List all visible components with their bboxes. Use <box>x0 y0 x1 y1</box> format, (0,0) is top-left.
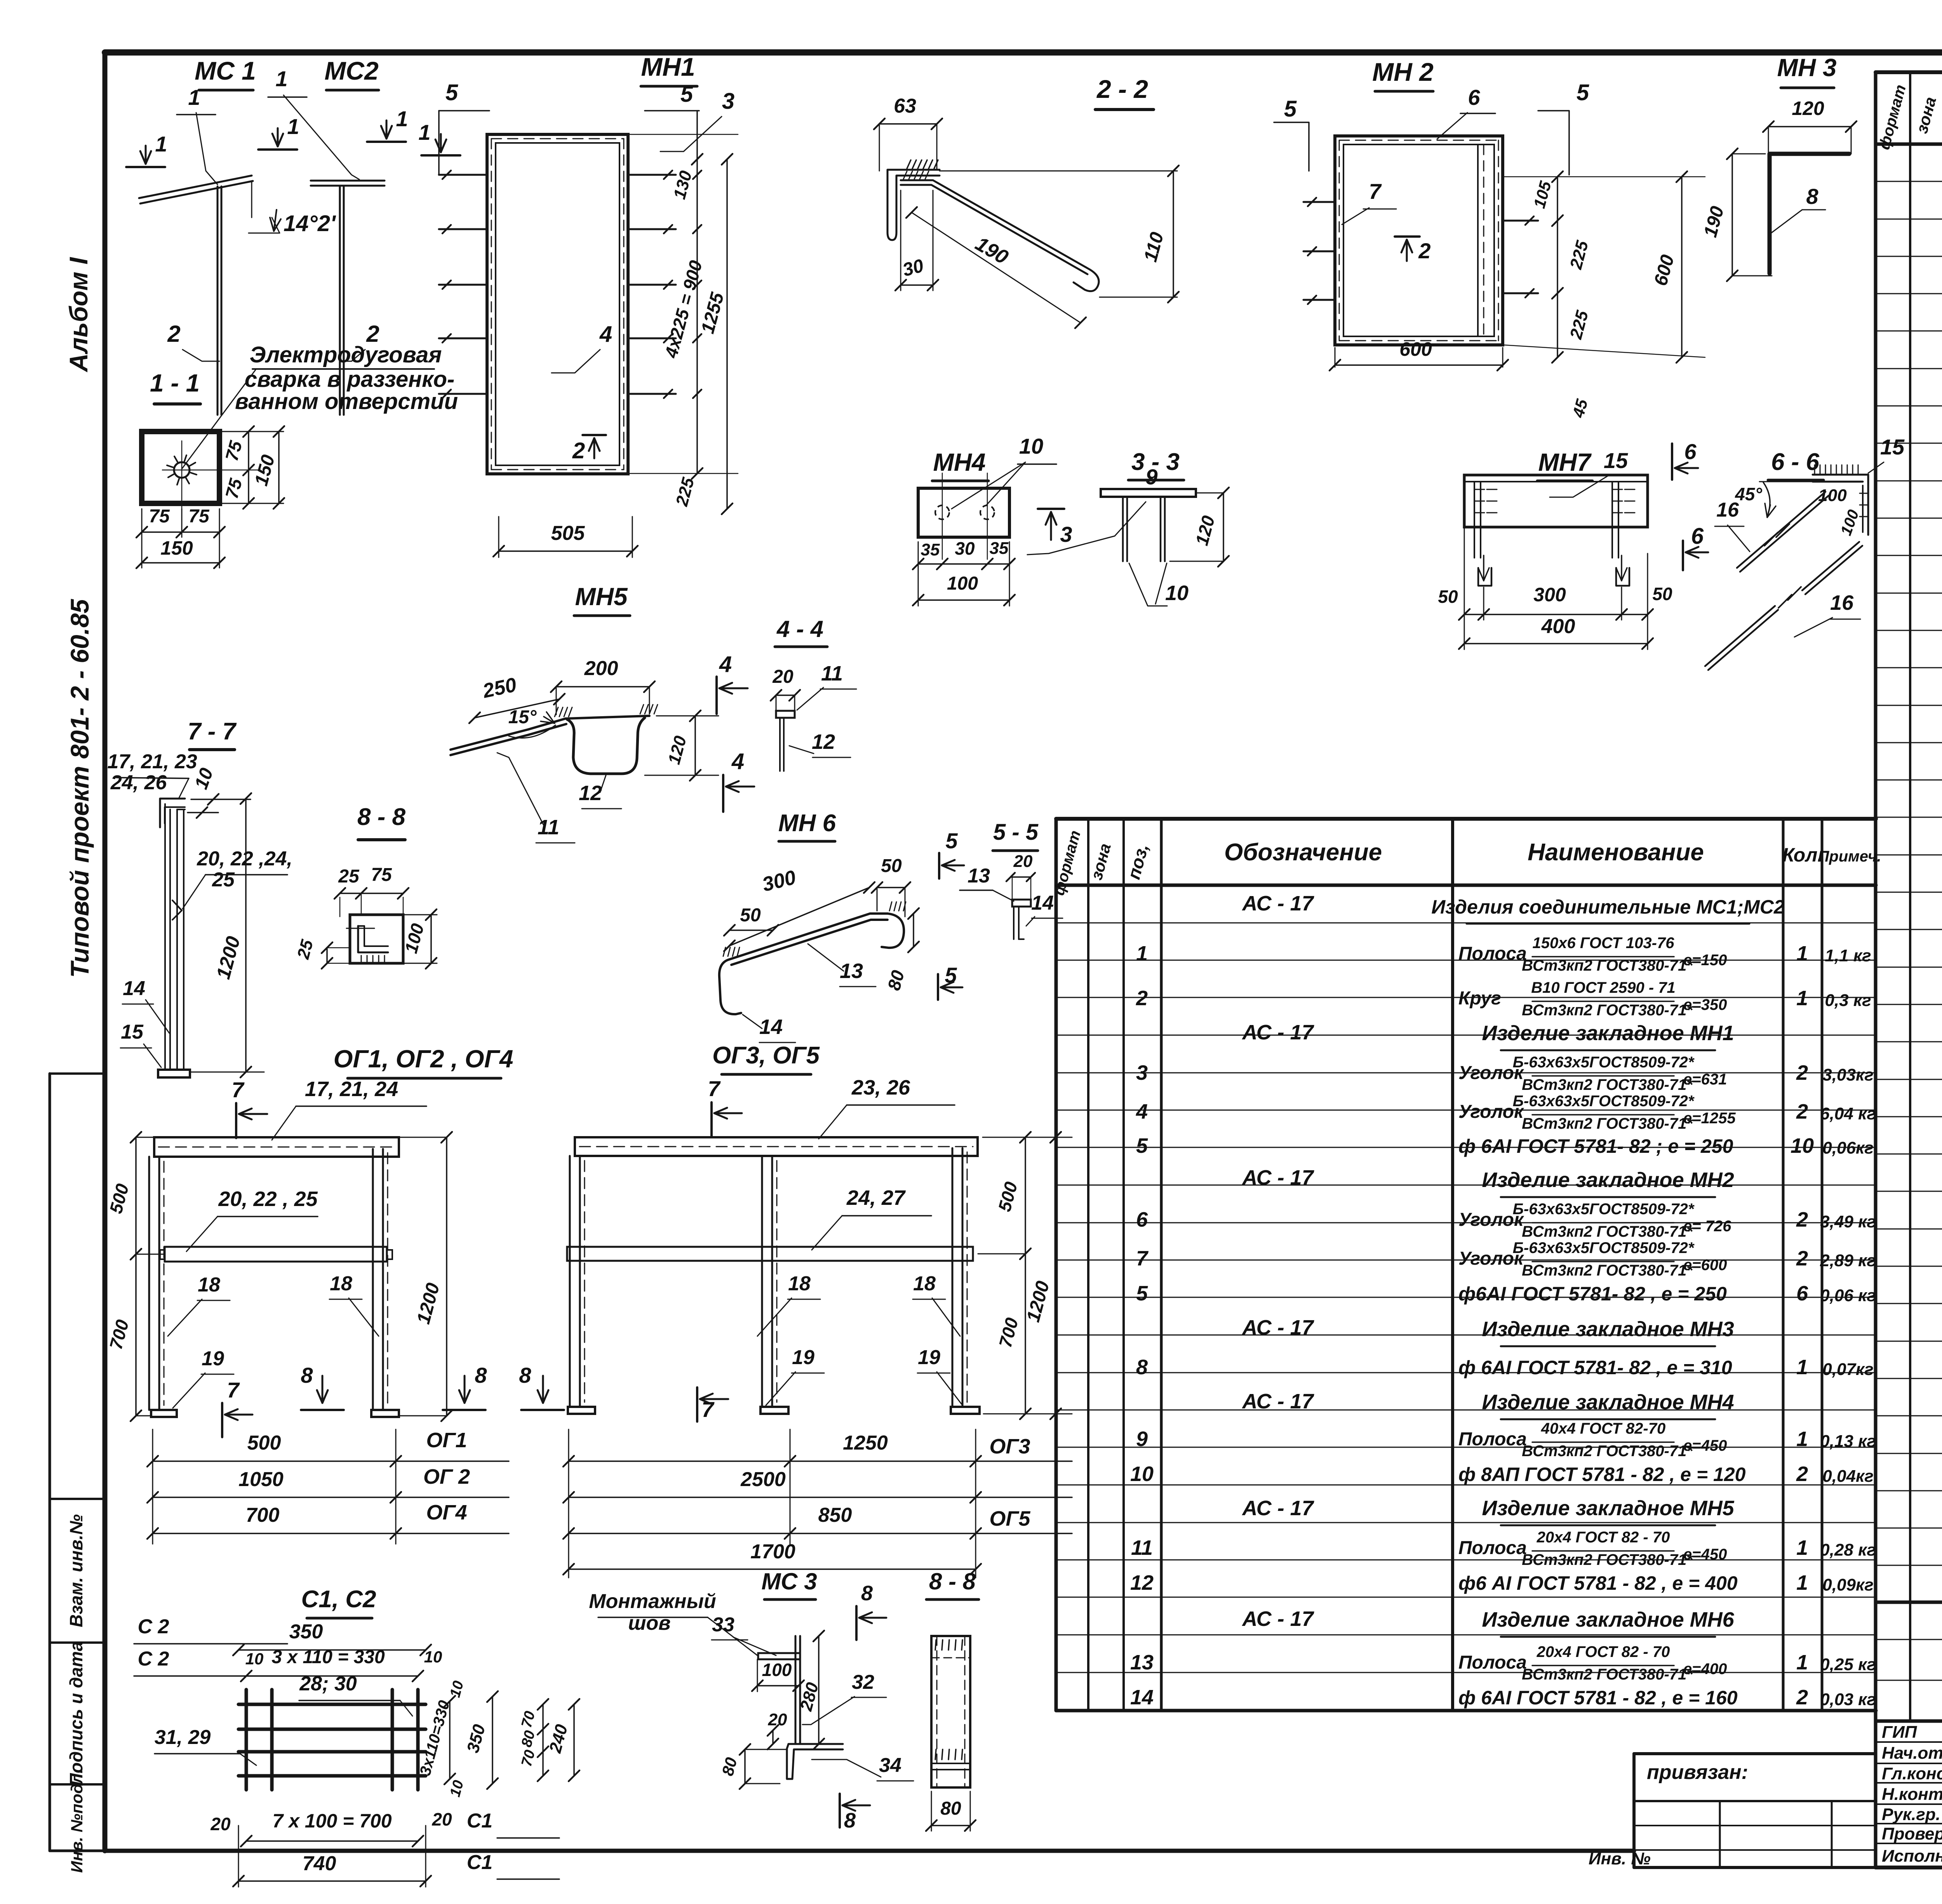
staff signature block <box>1874 1721 1878 1867</box>
svg-text:8: 8 <box>844 1809 856 1832</box>
svg-text:АС - 17: АС - 17 <box>1241 1021 1314 1044</box>
svg-text:Б-63х63х5ГОСТ8509-72*: Б-63х63х5ГОСТ8509-72* <box>1513 1239 1695 1257</box>
MN3 dim 190 <box>1731 154 1733 276</box>
svg-text:14: 14 <box>1031 892 1054 914</box>
svg-text:15: 15 <box>1604 448 1628 473</box>
5-5 bolt stem <box>1018 907 1020 939</box>
6-6 top angle horizontal hatched <box>1813 474 1868 476</box>
svg-text:740: 740 <box>303 1852 336 1875</box>
MN5 sloped sheet <box>451 716 649 750</box>
svg-text:3,03кг: 3,03кг <box>1822 1065 1873 1084</box>
svg-text:e= 726: e= 726 <box>1683 1218 1731 1235</box>
6-6 middle diagonal bar <box>1802 542 1859 590</box>
svg-text:17, 21, 23: 17, 21, 23 <box>107 750 197 773</box>
svg-text:С 2: С 2 <box>138 1648 169 1670</box>
svg-text:1: 1 <box>1136 942 1148 965</box>
6-6 upper diagonal bar <box>1737 492 1825 568</box>
svg-text:14°2': 14°2' <box>284 211 336 236</box>
svg-text:сварка в раззенко-: сварка в раззенко- <box>245 367 455 392</box>
right spec table outer frame <box>1876 70 1942 74</box>
svg-text:Рук.гр.: Рук.гр. <box>1882 1805 1940 1824</box>
MC3 vertical plate <box>799 1636 801 1744</box>
svg-text:40х4 ГОСТ 82-70: 40х4 ГОСТ 82-70 <box>1541 1420 1665 1437</box>
svg-text:Типовой проект 801- 2 - 60.8: Типовой проект 801- 2 - 60.85 <box>65 599 94 978</box>
svg-text:7: 7 <box>231 1077 245 1102</box>
svg-text:ф 6АI ГОСТ 5781- 82 ; e = 250: ф 6АI ГОСТ 5781- 82 ; e = 250 <box>1458 1135 1733 1157</box>
svg-text:3: 3 <box>1136 1061 1148 1084</box>
svg-text:2500: 2500 <box>740 1468 786 1491</box>
MN1 frame inner <box>496 143 619 465</box>
svg-text:ОГ3, ОГ5: ОГ3, ОГ5 <box>712 1042 820 1069</box>
svg-text:50: 50 <box>740 905 761 926</box>
svg-text:8 - 8: 8 - 8 <box>929 1568 976 1594</box>
svg-text:18: 18 <box>330 1272 352 1295</box>
svg-text:ОГ1, ОГ2 , ОГ4: ОГ1, ОГ2 , ОГ4 <box>334 1045 513 1073</box>
svg-text:1: 1 <box>1796 1427 1808 1451</box>
2-2 dim 30 <box>901 284 933 286</box>
MN7 section mark 6 bottom <box>1682 541 1684 570</box>
MN1 bottom dim 505 <box>499 550 632 552</box>
MN6 left hook <box>719 959 741 1014</box>
svg-text:1: 1 <box>1796 987 1808 1010</box>
svg-text:ф 6АI ГОСТ 5781 - 82 , e = 1: ф 6АI ГОСТ 5781 - 82 , e = 160 <box>1458 1687 1738 1709</box>
MN2 inner web line <box>1477 144 1479 336</box>
svg-text:505: 505 <box>551 522 585 545</box>
svg-text:25: 25 <box>212 868 235 891</box>
svg-text:e=1255: e=1255 <box>1683 1110 1736 1127</box>
svg-text:19: 19 <box>792 1346 814 1369</box>
OG35 middle post <box>771 1156 773 1407</box>
svg-text:7 х 100 = 700: 7 х 100 = 700 <box>272 1810 392 1832</box>
svg-text:2,89 кг: 2,89 кг <box>1820 1251 1876 1270</box>
svg-text:3,49 кг: 3,49 кг <box>1820 1212 1876 1231</box>
svg-text:шов: шов <box>628 1612 670 1634</box>
svg-text:4: 4 <box>719 652 732 677</box>
MC3 bottom angle <box>787 1744 843 1779</box>
svg-text:Изделие закладное МН4: Изделие закладное МН4 <box>1482 1391 1734 1414</box>
3-3 tee webs <box>1126 497 1128 561</box>
svg-text:ВСт3кп2 ГОСТ380-71*: ВСт3кп2 ГОСТ380-71* <box>1522 1443 1693 1460</box>
svg-text:50: 50 <box>1438 587 1458 607</box>
1-1 plate <box>142 432 219 503</box>
svg-text:ф 6АI ГОСТ 5781- 82 , e = 31: ф 6АI ГОСТ 5781- 82 , e = 310 <box>1458 1357 1732 1378</box>
8-8 square plate <box>350 915 403 963</box>
middle table column line zona <box>1122 819 1125 1711</box>
OG124 right foot <box>371 1410 399 1417</box>
svg-text:2: 2 <box>1796 1686 1808 1709</box>
svg-text:8: 8 <box>519 1363 531 1387</box>
svg-text:12: 12 <box>812 730 835 754</box>
svg-text:1700: 1700 <box>750 1540 795 1563</box>
MC3 dim 80 left <box>744 1749 746 1784</box>
2-2 dim 110 <box>1173 171 1174 297</box>
C12 mesh horizontal wires <box>238 1703 426 1706</box>
4-4 bolt head <box>776 711 795 718</box>
svg-text:МН7: МН7 <box>1538 448 1592 476</box>
7-7 post top angle <box>160 799 185 827</box>
8-8 dim 100 right <box>430 915 432 963</box>
svg-text:50: 50 <box>881 856 902 876</box>
MN2 section mark 2 <box>1395 235 1420 238</box>
svg-text:e=631: e=631 <box>1683 1071 1727 1088</box>
svg-text:Обозначение: Обозначение <box>1224 839 1382 866</box>
3-3 leader from 9 <box>1027 502 1146 555</box>
MN6 dim 50 right <box>877 887 905 888</box>
svg-text:МН 2: МН 2 <box>1372 57 1434 86</box>
OG124 bottom dims 500 1050 700 OG1 OG2 OG4 <box>152 1429 153 1544</box>
svg-text:500: 500 <box>247 1432 281 1454</box>
svg-text:7 - 7: 7 - 7 <box>188 718 237 745</box>
svg-text:Подпись и дата: Подпись и дата <box>66 1641 86 1786</box>
svg-text:14: 14 <box>123 977 145 1000</box>
2-2 slanted dim 190 <box>912 212 1081 323</box>
svg-text:200: 200 <box>584 657 618 680</box>
svg-text:0,28 кг: 0,28 кг <box>1820 1540 1876 1559</box>
MN4 weld mark 3 right <box>1038 508 1064 510</box>
3-3 dim 120 <box>1223 493 1224 561</box>
svg-text:5 - 5: 5 - 5 <box>993 820 1039 845</box>
svg-text:С1, С2: С1, С2 <box>301 1586 376 1613</box>
svg-text:ВСт3кп2 ГОСТ380-71*: ВСт3кп2 ГОСТ380-71* <box>1522 1223 1693 1240</box>
MN2 weld ties right <box>1503 220 1538 222</box>
MN7 section mark 6 top <box>1671 444 1673 480</box>
svg-text:8 - 8: 8 - 8 <box>357 804 406 830</box>
svg-text:ванном отверстии: ванном отверстии <box>235 389 458 414</box>
svg-text:13: 13 <box>1130 1651 1154 1674</box>
left margin strip boxes <box>49 1074 51 1851</box>
svg-text:5: 5 <box>680 82 693 107</box>
svg-text:1: 1 <box>1796 1536 1808 1559</box>
middle spec table outer frame <box>1056 817 1876 821</box>
svg-text:12: 12 <box>579 781 602 805</box>
svg-text:50: 50 <box>1652 584 1672 604</box>
svg-text:120: 120 <box>1792 97 1824 119</box>
svg-text:ВСт3кп2 ГОСТ380-71*: ВСт3кп2 ГОСТ380-71* <box>1522 1115 1693 1132</box>
svg-text:ВСт3кп2 ГОСТ380-71*: ВСт3кп2 ГОСТ380-71* <box>1522 957 1693 974</box>
7-7 post left member <box>164 804 166 1070</box>
sheet border frame <box>105 49 1942 56</box>
svg-text:6 - 6: 6 - 6 <box>1771 449 1820 475</box>
svg-text:АС - 17: АС - 17 <box>1241 1607 1314 1631</box>
svg-text:34: 34 <box>879 1754 901 1777</box>
MN1 frame dashed lines <box>491 138 624 139</box>
svg-text:АС - 17: АС - 17 <box>1241 1316 1314 1339</box>
svg-text:ОГ1: ОГ1 <box>426 1429 467 1452</box>
MN2 weld ties left <box>1303 201 1335 203</box>
6-6 angle vertical lip <box>1867 475 1869 535</box>
title block frame <box>1876 1720 1942 1723</box>
MN2 frame inner <box>1343 144 1494 336</box>
MC3 top flange <box>758 1653 800 1659</box>
svg-text:10: 10 <box>1019 434 1043 458</box>
4-4 dim 20 <box>776 694 795 696</box>
4-4 bolt stem <box>783 718 785 771</box>
svg-text:6: 6 <box>1136 1208 1148 1231</box>
svg-text:12: 12 <box>1130 1571 1154 1594</box>
MC1 weld mark 1a <box>126 166 165 168</box>
1-1 bottom dims 75 75 150 <box>142 531 219 533</box>
svg-text:13: 13 <box>968 865 990 887</box>
svg-text:20: 20 <box>1013 852 1033 871</box>
OG124 dim left 500 700 <box>135 1137 137 1416</box>
MN2 dims right 105 225 225 45 <box>1557 177 1558 357</box>
C12 right dims <box>449 1701 451 1779</box>
svg-text:150: 150 <box>160 537 193 559</box>
svg-text:14: 14 <box>759 1015 783 1039</box>
svg-text:Электродуговая: Электродуговая <box>250 342 442 367</box>
privyazan box <box>1634 1752 1876 1755</box>
MN7 dim 400 <box>1464 643 1648 644</box>
svg-text:1: 1 <box>1796 942 1808 965</box>
svg-text:Б-63х63х5ГОСТ8509-72*: Б-63х63х5ГОСТ8509-72* <box>1513 1201 1695 1218</box>
MC2 weld mark 1b <box>421 154 460 157</box>
8-8 lower dim 80 <box>931 1825 970 1826</box>
svg-text:С1: С1 <box>467 1851 492 1874</box>
OG35 left post <box>579 1156 581 1407</box>
MN3 dim 120 <box>1768 126 1851 127</box>
1-1 right dims 75 75 150 <box>248 432 249 503</box>
svg-text:2: 2 <box>1418 238 1430 263</box>
svg-text:Наименование: Наименование <box>1528 839 1704 866</box>
svg-text:20, 22 , 25: 20, 22 , 25 <box>218 1187 318 1211</box>
svg-text:5: 5 <box>445 80 458 105</box>
8-8 inner angle hatched <box>358 926 388 952</box>
svg-text:1: 1 <box>1796 1651 1808 1674</box>
svg-text:Провер.: Провер. <box>1882 1824 1942 1843</box>
svg-text:15°: 15° <box>508 707 537 727</box>
svg-text:6,04 кг: 6,04 кг <box>1820 1104 1876 1123</box>
svg-text:В10 ГОСТ 2590 - 71: В10 ГОСТ 2590 - 71 <box>1531 979 1676 996</box>
svg-text:МН4: МН4 <box>933 448 985 476</box>
2-2 angle bracket <box>887 170 940 240</box>
svg-text:2: 2 <box>167 321 180 347</box>
OG124 middle rail <box>165 1247 387 1262</box>
3-3 tee flange <box>1101 489 1196 497</box>
MN3 angle <box>1770 154 1849 273</box>
MC2 vertical stem <box>343 186 345 415</box>
svg-text:63: 63 <box>894 95 916 117</box>
svg-text:100: 100 <box>947 573 978 594</box>
svg-text:ОГ4: ОГ4 <box>426 1501 467 1524</box>
svg-text:Б-63х63х5ГОСТ8509-72*: Б-63х63х5ГОСТ8509-72* <box>1513 1054 1695 1071</box>
svg-text:1: 1 <box>275 66 287 91</box>
svg-text:1,1 кг: 1,1 кг <box>1825 946 1871 965</box>
svg-text:7: 7 <box>1369 179 1382 204</box>
MN6 dim 80 <box>913 914 914 947</box>
MN5 channel U <box>567 718 645 774</box>
MC2 weld mark 1a <box>367 141 406 143</box>
MC2 horizontal flat bar <box>311 180 385 182</box>
MN6 right hook <box>882 914 904 948</box>
MN7 plate <box>1464 475 1648 527</box>
svg-text:19: 19 <box>202 1347 224 1370</box>
svg-text:20: 20 <box>432 1809 452 1829</box>
svg-text:ф 8АП ГОСТ 5781 - 82 , e =: ф 8АП ГОСТ 5781 - 82 , e = 120 <box>1458 1464 1746 1485</box>
svg-text:0,25 кг: 0,25 кг <box>1820 1655 1876 1674</box>
svg-text:1250: 1250 <box>843 1432 888 1454</box>
svg-text:Полоса: Полоса <box>1458 943 1527 964</box>
svg-text:ОГ5: ОГ5 <box>989 1507 1030 1530</box>
OG124 top bar <box>154 1137 399 1157</box>
svg-text:e=400: e=400 <box>1683 1660 1727 1678</box>
svg-text:2: 2 <box>572 438 585 463</box>
svg-text:25: 25 <box>338 866 360 887</box>
svg-text:Н.контр.: Н.контр. <box>1882 1785 1942 1804</box>
7-7 post right member <box>176 809 178 1070</box>
MN7 dims 50 300 50 <box>1464 614 1648 615</box>
right table row grid lines <box>1876 181 1942 182</box>
svg-text:15: 15 <box>1880 435 1905 459</box>
svg-text:Примеч.: Примеч. <box>1818 848 1881 865</box>
svg-text:e=150: e=150 <box>1683 952 1727 969</box>
svg-text:Изделия соединительные МС1;МС2: Изделия соединительные МС1;МС2 <box>1431 896 1785 918</box>
C12 mesh vertical wires <box>245 1690 248 1790</box>
svg-text:Б-63х63х5ГОСТ8509-72*: Б-63х63х5ГОСТ8509-72* <box>1513 1093 1695 1110</box>
svg-text:23, 26: 23, 26 <box>851 1076 910 1099</box>
C12 bottom dim 740 <box>238 1880 426 1882</box>
svg-text:1: 1 <box>1796 1571 1808 1594</box>
svg-text:24, 27: 24, 27 <box>846 1186 906 1210</box>
svg-text:МН 3: МН 3 <box>1777 54 1837 82</box>
svg-text:e=350: e=350 <box>1683 996 1727 1013</box>
svg-text:14: 14 <box>1130 1686 1154 1709</box>
svg-text:Изделие закладное МН6: Изделие закладное МН6 <box>1482 1608 1734 1631</box>
svg-text:ОГ3: ОГ3 <box>989 1435 1030 1458</box>
OG124 dim right 1200 <box>446 1137 447 1416</box>
MC1 sloped flat bar <box>139 176 252 198</box>
MN4 plate <box>918 488 1009 537</box>
middle table column line oboznachenie <box>1451 819 1454 1711</box>
MN2 frame outer <box>1335 136 1503 345</box>
svg-text:6: 6 <box>1796 1282 1808 1305</box>
svg-text:МС 3: МС 3 <box>761 1568 817 1594</box>
svg-text:16: 16 <box>1716 499 1739 521</box>
OG124 left foot <box>151 1410 177 1417</box>
MN4 holes dashed <box>935 505 949 519</box>
svg-text:30: 30 <box>955 538 975 559</box>
1-1 hole with rays <box>174 462 190 478</box>
svg-text:МН 6: МН 6 <box>778 810 836 837</box>
svg-text:0,06кг: 0,06кг <box>1822 1138 1873 1157</box>
svg-text:ф6 АI ГОСТ 5781 - 82 , e =: ф6 АI ГОСТ 5781 - 82 , e = 400 <box>1458 1572 1738 1594</box>
svg-text:5: 5 <box>1136 1282 1148 1305</box>
svg-text:1050: 1050 <box>238 1468 284 1491</box>
svg-text:11: 11 <box>1131 1536 1153 1559</box>
svg-text:8: 8 <box>1806 184 1818 209</box>
svg-text:Изделие закладное МН2: Изделие закладное МН2 <box>1482 1168 1734 1192</box>
OG35 middle rail <box>567 1247 973 1261</box>
svg-text:7: 7 <box>708 1076 721 1101</box>
svg-text:16: 16 <box>1830 591 1854 614</box>
MN2 frame dashed <box>1339 140 1498 141</box>
6-6 lower diagonal bar <box>1705 606 1775 666</box>
svg-text:ВСт3кп2 ГОСТ380-71*: ВСт3кп2 ГОСТ380-71* <box>1522 1551 1693 1568</box>
svg-text:5: 5 <box>945 828 958 853</box>
extended format column row lines <box>1876 1639 1942 1640</box>
MN1 weld tie bars left <box>439 174 487 176</box>
svg-text:20: 20 <box>210 1814 231 1834</box>
svg-text:Альбом I: Альбом I <box>64 257 93 372</box>
svg-text:11: 11 <box>821 662 843 685</box>
middle table column line poz <box>1160 819 1163 1711</box>
svg-text:Взам. инв.№: Взам. инв.№ <box>66 1514 86 1627</box>
svg-text:0,03 кг: 0,03 кг <box>1820 1690 1876 1709</box>
svg-text:С1: С1 <box>467 1810 492 1832</box>
MN6 sloped bar <box>729 914 887 959</box>
svg-text:20: 20 <box>772 667 794 687</box>
svg-text:80: 80 <box>940 1798 961 1819</box>
svg-text:8: 8 <box>861 1582 873 1605</box>
7-7 bottom flange <box>158 1070 190 1077</box>
privyazan box inner grid <box>1719 1801 1721 1867</box>
weld note leader to 1-1 hole <box>182 370 256 468</box>
OG124 right post <box>382 1149 384 1410</box>
MN4 dim 100 <box>918 599 1009 601</box>
svg-text:20х4 ГОСТ 82 - 70: 20х4 ГОСТ 82 - 70 <box>1537 1529 1670 1546</box>
MN1 right dim column <box>696 159 698 473</box>
MN1 frame outer <box>487 134 628 474</box>
svg-text:ВСт3кп2 ГОСТ380-71*: ВСт3кп2 ГОСТ380-71* <box>1522 1262 1693 1279</box>
svg-text:Монтажный: Монтажный <box>589 1590 716 1613</box>
svg-text:4 - 4: 4 - 4 <box>776 616 823 642</box>
MN6 dim 50 left <box>729 929 773 931</box>
svg-text:Изделие закладное МН3: Изделие закладное МН3 <box>1482 1317 1734 1341</box>
svg-text:75: 75 <box>149 506 170 527</box>
svg-text:20х4 ГОСТ 82 - 70: 20х4 ГОСТ 82 - 70 <box>1537 1643 1670 1660</box>
svg-text:МН1: МН1 <box>641 52 695 81</box>
svg-text:18: 18 <box>788 1272 811 1295</box>
C12 bottom dim 7x100 700 <box>246 1840 418 1842</box>
7-7 weld chevron <box>172 900 182 920</box>
7-7 dim 1200 <box>245 799 247 1072</box>
svg-text:ГИП: ГИП <box>1882 1723 1918 1742</box>
svg-text:Изделие закладное МН5: Изделие закладное МН5 <box>1482 1497 1734 1520</box>
2-2 weld hatch on bracket <box>907 160 911 169</box>
svg-text:850: 850 <box>818 1504 852 1526</box>
MN2 bottom dim 600 <box>1335 364 1503 366</box>
svg-text:2 - 2: 2 - 2 <box>1096 75 1148 103</box>
svg-text:e=450: e=450 <box>1683 1546 1727 1563</box>
svg-text:700: 700 <box>246 1504 280 1526</box>
OG35 bottom dims 1250 2500 850 1700 <box>568 1429 569 1578</box>
MC1 vertical stem <box>221 186 223 415</box>
svg-text:150х6 ГОСТ 103-76: 150х6 ГОСТ 103-76 <box>1533 935 1675 952</box>
svg-text:6: 6 <box>1691 524 1704 549</box>
8-8 lower bar <box>931 1636 970 1787</box>
svg-text:АС - 17: АС - 17 <box>1241 1497 1314 1520</box>
svg-text:ОГ 2: ОГ 2 <box>423 1465 470 1488</box>
svg-text:Кол.: Кол. <box>1782 844 1823 866</box>
svg-text:Гл.конст: Гл.конст <box>1882 1764 1942 1783</box>
svg-text:8: 8 <box>1136 1356 1148 1379</box>
svg-text:e=450: e=450 <box>1683 1437 1727 1454</box>
svg-text:2: 2 <box>1796 1061 1808 1084</box>
svg-text:8: 8 <box>475 1363 487 1387</box>
svg-text:20, 22 ,24,: 20, 22 ,24, <box>197 848 292 870</box>
svg-text:35: 35 <box>990 539 1009 558</box>
svg-text:5: 5 <box>1284 96 1297 122</box>
svg-text:Нач.отд.: Нач.отд. <box>1882 1744 1942 1763</box>
svg-text:0,3 кг: 0,3 кг <box>1825 991 1871 1010</box>
svg-text:e=600: e=600 <box>1683 1257 1727 1274</box>
middle table column line kol <box>1782 819 1785 1711</box>
OG124 left post <box>158 1157 160 1410</box>
2-2 sloped rod <box>901 180 1090 270</box>
C12 top dim 350 <box>238 1649 426 1651</box>
svg-text:32: 32 <box>852 1671 874 1693</box>
MN7 stud left <box>1480 482 1481 558</box>
svg-text:ф6АI ГОСТ 5781- 82 , e = 250: ф6АI ГОСТ 5781- 82 , e = 250 <box>1458 1283 1727 1305</box>
